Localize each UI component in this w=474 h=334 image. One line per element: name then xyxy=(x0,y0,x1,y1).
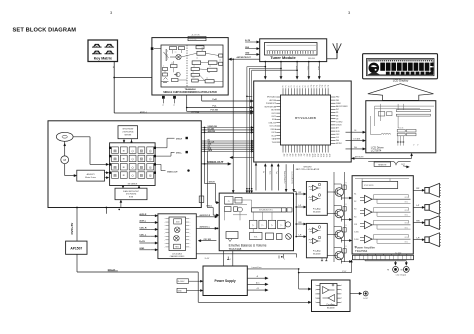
svg-text:◇: ◇ xyxy=(131,174,134,178)
svg-text:DATA: DATA xyxy=(208,149,213,152)
wire lineout run xyxy=(247,268,298,270)
svg-text:▷: ▷ xyxy=(252,224,254,227)
svg-text:▤: ▤ xyxy=(113,157,116,161)
aux buffer amp box xyxy=(158,214,196,259)
wire power amp to speaker SP1 xyxy=(413,189,423,191)
wire DVD-R to volume IC xyxy=(204,128,206,184)
radio IC varactor parts xyxy=(163,68,168,71)
svg-text:▧: ▧ xyxy=(140,149,143,153)
line out jack J2 xyxy=(403,267,409,273)
svg-text:DVD-R: DVD-R xyxy=(209,182,216,184)
wire radio to CPU PCT-SB xyxy=(186,107,188,109)
LCD display segment digits xyxy=(380,63,385,71)
LCD driver U301 box xyxy=(366,101,436,153)
svg-text:Pre-Amp: Pre-Amp xyxy=(313,208,322,211)
svg-text:LCD Display: LCD Display xyxy=(393,79,409,83)
wire preamp to sub jack xyxy=(350,293,361,295)
bus wires DVD to CPU upper xyxy=(201,127,252,129)
svg-text:SINGLE CHIP RADIO/DEMODULATOR+: SINGLE CHIP RADIO/DEMODULATOR+FILTER xyxy=(163,91,217,94)
svg-text:R: R xyxy=(346,225,347,227)
transistor Q402 xyxy=(335,209,344,218)
svg-text:X1 4.33: X1 4.33 xyxy=(398,128,403,130)
svg-text:P6: P6 xyxy=(300,85,302,87)
line out jack J1 xyxy=(393,267,399,273)
wires DSP to ROM xyxy=(122,186,124,188)
radio IC bottom pin stubs xyxy=(162,96,165,99)
svg-text:MUTE2: MUTE2 xyxy=(336,143,342,145)
svg-text:xxx: xxx xyxy=(192,77,194,79)
wires CPU to LCD driver INH xyxy=(346,148,365,150)
svg-text:P1: P1 xyxy=(286,85,288,87)
CPU right pin rows xyxy=(331,96,336,98)
motor driver box xyxy=(77,170,105,181)
svg-text:OUT+: OUT+ xyxy=(405,210,409,212)
svg-text:OUT-: OUT- xyxy=(405,215,409,217)
speaker SP3 rear-right xyxy=(425,220,429,226)
svg-text:▤: ▤ xyxy=(113,165,116,169)
svg-text:+B +5V TUN: +B +5V TUN xyxy=(191,35,199,37)
svg-text:P13: P13 xyxy=(319,85,321,88)
svg-text:AP1507: AP1507 xyxy=(70,247,82,251)
svg-text:DVD-L: DVD-L xyxy=(176,152,183,154)
svg-text:WT62P2: WT62P2 xyxy=(303,166,312,168)
svg-text:CL/SRQ: CL/SRQ xyxy=(336,122,343,124)
DSP left edge pads xyxy=(109,147,111,149)
volume IC gain blocks row xyxy=(250,220,257,228)
svg-text:R-F: R-F xyxy=(299,192,302,194)
svg-text:1: 1 xyxy=(230,259,231,261)
svg-text:▷: ▷ xyxy=(280,224,282,227)
svg-text:▷: ▷ xyxy=(271,224,273,227)
svg-text:S-OUT: S-OUT xyxy=(363,298,368,300)
svg-text:ANT/MUTE: ANT/MUTE xyxy=(355,156,364,159)
svg-text:ATT: ATT xyxy=(336,127,339,130)
svg-text:BACK/POWER: BACK/POWER xyxy=(336,105,348,108)
svg-text:xxx: xxx xyxy=(206,78,208,80)
transistor Q401 xyxy=(335,188,344,197)
wire aux out L xyxy=(196,227,216,229)
svg-text:Key Matrix: Key Matrix xyxy=(94,57,112,61)
svg-text:Vcc: Vcc xyxy=(173,104,175,107)
pre-amp U401 opamps xyxy=(313,185,318,190)
svg-text:BT72121ARFB: BT72121ARFB xyxy=(295,116,316,120)
svg-text:R: R xyxy=(346,183,347,185)
radio IC antenna input pad xyxy=(151,47,154,50)
wires CPU to LCD driver CE xyxy=(346,131,365,133)
svg-text:TDA7564: TDA7564 xyxy=(355,249,368,253)
antenna ANT1 xyxy=(336,52,338,59)
wire aux out R xyxy=(196,216,216,218)
svg-text:◇: ◇ xyxy=(131,157,134,161)
DSP block box xyxy=(110,143,156,186)
aux buffer pin stubs xyxy=(165,218,169,220)
svg-text:SET BLOCK DIAGRAM: SET BLOCK DIAGRAM xyxy=(13,27,77,33)
svg-text:MT1389DE: MT1389DE xyxy=(128,183,138,185)
CPU U201 outer box xyxy=(254,81,352,162)
ground marks under power amp xyxy=(278,256,280,259)
svg-text:VOL: VOL xyxy=(254,236,258,238)
svg-text:Pre-Amp: Pre-Amp xyxy=(327,303,336,306)
svg-text:SERVER: SERVER xyxy=(124,134,132,136)
svg-text:Motor Driver: Motor Driver xyxy=(85,176,96,179)
wire DSP to video pad xyxy=(156,163,161,165)
svg-text:≡: ≡ xyxy=(123,165,125,169)
svg-text:DISC/K: DISC/K xyxy=(336,125,343,127)
LCD display emblem xyxy=(369,63,380,74)
svg-text:ASB-DB: ASB-DB xyxy=(208,130,216,133)
svg-text:AUX-R: AUX-R xyxy=(139,213,146,216)
svg-text:▷: ▷ xyxy=(262,224,264,227)
transistor Q403 xyxy=(335,230,344,239)
svg-text:◎: ◎ xyxy=(149,174,152,178)
wire antenna to tuner xyxy=(327,58,337,60)
wires volume IC to power supply xyxy=(223,251,225,266)
svg-text:SPDIO(A-T): SPDIO(A-T) xyxy=(267,96,277,99)
wires tuner module down to CPU xyxy=(264,62,266,78)
svg-text:TDA7448: TDA7448 xyxy=(229,247,242,251)
LCD display tick band xyxy=(369,60,433,62)
wire power amp to speaker SP3 xyxy=(413,222,423,224)
svg-text:DVD+5V: DVD+5V xyxy=(108,270,116,272)
wire DSP to DVD-L pad xyxy=(156,155,171,157)
svg-text:1: 1 xyxy=(284,259,285,261)
brace remote group xyxy=(368,161,410,165)
wire DVD-L to volume IC xyxy=(206,151,208,207)
svg-text:IN1: IN1 xyxy=(354,194,357,196)
svg-text:OUT-: OUT- xyxy=(405,242,409,244)
volume IC wires xyxy=(233,199,252,201)
CPU bottom pin stubs xyxy=(282,145,284,153)
CPU U201 inner IC body xyxy=(281,95,331,145)
svg-text:xxx: xxx xyxy=(192,71,194,73)
power amp bottom pins xyxy=(359,254,361,256)
tuner module comb ticks xyxy=(266,51,268,54)
svg-text:BC4558: BC4558 xyxy=(313,211,321,213)
svg-text:4558: 4558 xyxy=(176,222,180,224)
svg-text:(TSOP3-MF28): (TSOP3-MF28) xyxy=(122,131,133,133)
radio IC internal wires xyxy=(181,53,197,57)
svg-text:▧: ▧ xyxy=(140,157,143,161)
spindle shaft xyxy=(64,141,66,156)
ground marks under pre-amp U402 xyxy=(321,258,323,261)
svg-text:P12: P12 xyxy=(317,85,319,88)
branch from elbow bundle into CPU xyxy=(246,96,248,98)
svg-text:BC4558: BC4558 xyxy=(327,307,335,309)
power amp channel amps xyxy=(365,195,373,203)
svg-text:CL/DATA: CL/DATA xyxy=(353,138,361,141)
small coupling box on DVD line xyxy=(199,196,204,203)
svg-text:B+14.4V: B+14.4V xyxy=(178,281,185,283)
power supply outputs xyxy=(247,277,266,279)
wire AP1507 to +5V run xyxy=(76,254,78,272)
pre-amp U402 box xyxy=(306,223,327,257)
svg-text:LC75874: LC75874 xyxy=(371,149,382,153)
wires CPU to LCD driver CL xyxy=(346,140,365,142)
speaker SP2 front-left xyxy=(425,205,429,211)
svg-text:D+5V: D+5V xyxy=(205,258,210,260)
svg-text:VIDEO-OUT: VIDEO-OUT xyxy=(207,160,223,164)
svg-text:L1 OSC +5V: L1 OSC +5V xyxy=(189,37,196,39)
radio IC internal blocks xyxy=(197,51,206,55)
transistor Q404 xyxy=(335,251,344,260)
svg-text:POWER/STP: POWER/STP xyxy=(266,103,277,105)
svg-text:▧: ▧ xyxy=(140,174,143,178)
transistor stage rails xyxy=(333,172,335,262)
svg-text:xxx: xxx xyxy=(209,65,211,67)
wires MCU box to DSP xyxy=(123,139,125,142)
battery input label xyxy=(177,279,189,284)
svg-text:CL2: CL2 xyxy=(336,137,339,139)
wire DVD+5V down xyxy=(76,208,78,242)
svg-text:KEY1: KEY1 xyxy=(272,113,276,115)
svg-text:IN4: IN4 xyxy=(354,216,357,218)
wire MUTE stub left of CPU xyxy=(231,157,254,159)
svg-text:P0: P0 xyxy=(283,85,285,87)
radio IC tuning coil xyxy=(166,49,167,53)
disc platter xyxy=(56,132,73,141)
svg-text:KEY(+): KEY(+) xyxy=(140,112,147,114)
svg-text:ANT/GM: ANT/GM xyxy=(269,99,276,102)
svg-text:FwR: FwR xyxy=(213,99,218,101)
wire ROM to +5V rail xyxy=(120,201,122,207)
svg-text:≡: ≡ xyxy=(123,149,125,153)
wire motor to driver xyxy=(64,164,66,176)
wire radio to CPU FwL xyxy=(186,95,188,108)
speaker SP1 front-right xyxy=(425,188,429,194)
svg-text:◎: ◎ xyxy=(149,165,152,169)
svg-text:WT61P803W: WT61P803W xyxy=(122,129,133,131)
svg-text:R: R xyxy=(346,204,347,206)
svg-text:ST-BY: ST-BY xyxy=(342,271,346,273)
svg-text:R: R xyxy=(346,246,347,248)
svg-text:ANT/MUTE/OUT: ANT/MUTE/OUT xyxy=(237,56,252,59)
wire CDC switch xyxy=(200,240,217,242)
svg-text:P9: P9 xyxy=(308,85,310,87)
svg-text:P14: P14 xyxy=(322,85,324,88)
svg-text:PCT/SB: PCT/SB xyxy=(192,112,200,114)
radio IC internal divider xyxy=(186,45,188,87)
pre-amp U401 box xyxy=(306,182,327,216)
block arrow LCD driver to display xyxy=(368,84,434,101)
volume control signal wires with labels xyxy=(264,164,266,190)
svg-text:Vcc GND: Vcc GND xyxy=(395,252,402,254)
radio IC agc block xyxy=(171,65,178,68)
svg-text:I2C/CLK: I2C/CLK xyxy=(270,126,277,128)
volume IC TDA7448 box xyxy=(219,193,293,251)
svg-text:MUTE/DET/AB: MUTE/DET/AB xyxy=(265,105,277,108)
svg-text:PB1: PB1 xyxy=(336,100,339,102)
radio IC mixer xyxy=(176,54,181,59)
svg-text:Line Output: Line Output xyxy=(396,274,407,277)
spindle motor M1 xyxy=(61,156,69,164)
tuner module inner can xyxy=(265,43,318,56)
svg-text:OUT-: OUT- xyxy=(405,202,409,204)
DSP inner function cells xyxy=(112,147,119,154)
volume IC input dots xyxy=(217,202,219,204)
DSP right edge pads xyxy=(154,147,156,149)
svg-text:P5: P5 xyxy=(297,85,299,87)
wire ST-BY run to connector strip xyxy=(299,272,352,274)
wire stub from DVD box bottom xyxy=(105,208,107,214)
pre-amp U402 opamps xyxy=(313,228,318,233)
svg-text:BC4558: BC4558 xyxy=(313,253,321,255)
svg-text:R-F: R-F xyxy=(417,188,420,190)
wire radio to CPU FwR xyxy=(201,95,203,101)
svg-text:IN2: IN2 xyxy=(354,201,357,203)
remote box xyxy=(374,162,391,166)
svg-text:CE2: CE2 xyxy=(336,134,339,136)
svg-text:Vcc: Vcc xyxy=(161,104,163,107)
svg-text:◇: ◇ xyxy=(131,165,134,169)
svg-text:KEY2: KEY2 xyxy=(272,116,276,118)
svg-text:◇: ◇ xyxy=(131,149,134,153)
power supply box xyxy=(203,266,247,296)
svg-text:▧: ▧ xyxy=(140,165,143,169)
wire strip to line out jacks xyxy=(364,260,366,261)
wire ANT-MUTE down to volume IC xyxy=(232,59,234,192)
volume IC bottom blocks xyxy=(226,232,238,239)
radio IC U101 outer box xyxy=(152,38,228,95)
servo MCU caption box xyxy=(118,126,138,139)
wire power amp to speaker SP4 xyxy=(413,239,423,241)
svg-text:ST-BY MUTE: ST-BY MUTE xyxy=(364,185,374,187)
volume IC switch matrix lines xyxy=(225,204,248,206)
svg-text:L-F: L-F xyxy=(299,205,302,207)
ground marks near power supply xyxy=(227,257,229,260)
svg-text:▤: ▤ xyxy=(113,174,116,178)
svg-text:agc: agc xyxy=(171,63,173,65)
svg-text:USB+/ON: USB+/ON xyxy=(269,122,277,124)
svg-text:xxx: xxx xyxy=(193,65,195,67)
svg-text:xxx: xxx xyxy=(219,60,221,62)
svg-text:AUX/CDC-L: AUX/CDC-L xyxy=(200,226,211,229)
wire power amp to speaker SP2 xyxy=(413,206,423,208)
radio IC transistor q xyxy=(176,72,180,76)
LCD display glass frame xyxy=(367,59,435,76)
svg-text:IN R-SELECTOR L: IN R-SELECTOR L xyxy=(259,210,273,212)
svg-text:xxx: xxx xyxy=(208,72,210,74)
LCD display lower segments xyxy=(386,72,390,75)
svg-text:Power Supply: Power Supply xyxy=(215,279,236,283)
svg-text:FLASH MX29LV160T: FLASH MX29LV160T xyxy=(123,190,139,193)
wire DSP to DVD-R pad xyxy=(156,147,167,149)
svg-text:osc: osc xyxy=(175,52,177,54)
svg-text:P10: P10 xyxy=(311,85,313,88)
power amplifier TDA7564 box xyxy=(352,176,413,254)
svg-text:≡: ≡ xyxy=(123,174,125,178)
wire key junction to radio IC left xyxy=(114,77,152,79)
connector strip CN401 xyxy=(353,255,414,259)
svg-text:SD/CL: SD/CL xyxy=(307,66,309,71)
flash ROM box xyxy=(115,188,147,200)
svg-text:◎: ◎ xyxy=(149,157,152,161)
svg-text:Pre-Amp: Pre-Amp xyxy=(313,250,322,253)
aux buffer interior xyxy=(169,217,186,251)
svg-text:DIMM: DIMM xyxy=(336,103,341,105)
wire pickup to DSP xyxy=(73,136,90,138)
gnd input label xyxy=(177,288,187,292)
sub out jack J3 xyxy=(363,291,368,296)
wires motor driver to DSP xyxy=(105,172,108,174)
svg-text:xxx: xxx xyxy=(196,57,198,59)
svg-text:L-F: L-F xyxy=(417,205,420,207)
svg-text:OUT+: OUT+ xyxy=(405,223,409,225)
speaker SP4 rear-left xyxy=(425,237,429,243)
svg-text:CDC SW: CDC SW xyxy=(204,239,212,241)
svg-text:VIDEO-OUT: VIDEO-OUT xyxy=(167,171,178,173)
svg-text:P15: P15 xyxy=(325,85,327,88)
svg-text:OUT+: OUT+ xyxy=(405,237,409,239)
svg-text:(TSOP48-FB): (TSOP48-FB) xyxy=(126,194,137,196)
svg-text:AN-8473: AN-8473 xyxy=(87,173,96,176)
volume IC long bus bar xyxy=(252,208,287,212)
regulator AP1507 box xyxy=(66,241,87,254)
bus wires DVD to CPU IIS xyxy=(201,140,252,142)
key matrix SW1 box xyxy=(88,40,118,62)
svg-text:PCT-SB: PCT-SB xyxy=(211,109,219,111)
pre-amp U403 opamps xyxy=(320,284,337,306)
LCD display module box xyxy=(363,54,438,79)
svg-text:ROM: ROM xyxy=(129,197,134,199)
svg-text:P4: P4 xyxy=(294,85,296,87)
wires volume IC to preamps xyxy=(294,191,297,193)
svg-text:OUT+: OUT+ xyxy=(405,197,409,199)
LCD display corner wedge xyxy=(428,70,434,75)
svg-text:◎: ◎ xyxy=(149,149,152,153)
svg-text:IN3: IN3 xyxy=(354,209,357,211)
svg-text:KES-300: KES-300 xyxy=(308,58,315,60)
wire Vcc feed to strip xyxy=(283,254,285,256)
radio IC top option box xyxy=(188,37,206,41)
DVD mechanism outer box xyxy=(48,121,201,208)
svg-text:AUX-L: AUX-L xyxy=(139,220,146,223)
svg-text:≡: ≡ xyxy=(123,157,125,161)
pre-amp U403 box xyxy=(312,280,351,312)
key matrix switch symbols xyxy=(92,46,102,48)
svg-text:8BIT CPU+OSCILLATOR: 8BIT CPU+OSCILLATOR xyxy=(296,168,320,171)
svg-text:AUX/CDC-R: AUX/CDC-R xyxy=(200,214,211,217)
svg-text:Bass: Bass xyxy=(269,171,271,175)
wire key matrix to CPU (KEY line) xyxy=(113,62,115,113)
svg-text:P7: P7 xyxy=(302,85,304,87)
svg-text:I2S/DA: I2S/DA xyxy=(271,128,277,131)
volume IC top feed stub xyxy=(255,162,257,191)
radio IC extra left blocks xyxy=(170,47,177,50)
volume IC left cluster xyxy=(225,197,234,205)
nested elbow wires down to volume IC xyxy=(247,66,265,68)
svg-text:OUT-: OUT- xyxy=(405,227,409,229)
svg-text:DVD-L: DVD-L xyxy=(207,206,214,208)
tuner module box xyxy=(260,39,327,62)
svg-text:DVD-R: DVD-R xyxy=(176,138,183,140)
svg-text:INT: INT xyxy=(336,109,339,111)
svg-text:P3: P3 xyxy=(291,85,293,87)
svg-text:PB0: PB0 xyxy=(336,97,339,99)
svg-text:REMOTE: REMOTE xyxy=(378,164,387,166)
svg-text:P2: P2 xyxy=(288,85,290,87)
svg-text:Lineout/Conn: Lineout/Conn xyxy=(252,266,262,269)
wire ANT-MUTE from LCD driver to CPU right xyxy=(353,157,412,159)
power amp top bias block xyxy=(362,181,398,188)
svg-text:Tuner Module: Tuner Module xyxy=(270,55,296,60)
CPU top pin stubs xyxy=(282,88,284,95)
radio IC inner block xyxy=(161,45,223,87)
CPU left pin rows xyxy=(276,96,280,98)
wire stub up into LCD driver bottom xyxy=(411,155,413,159)
LCD driver interior detail xyxy=(375,105,434,107)
svg-text:P16: P16 xyxy=(328,85,330,88)
wire +5V run down to preamp xyxy=(197,272,199,302)
